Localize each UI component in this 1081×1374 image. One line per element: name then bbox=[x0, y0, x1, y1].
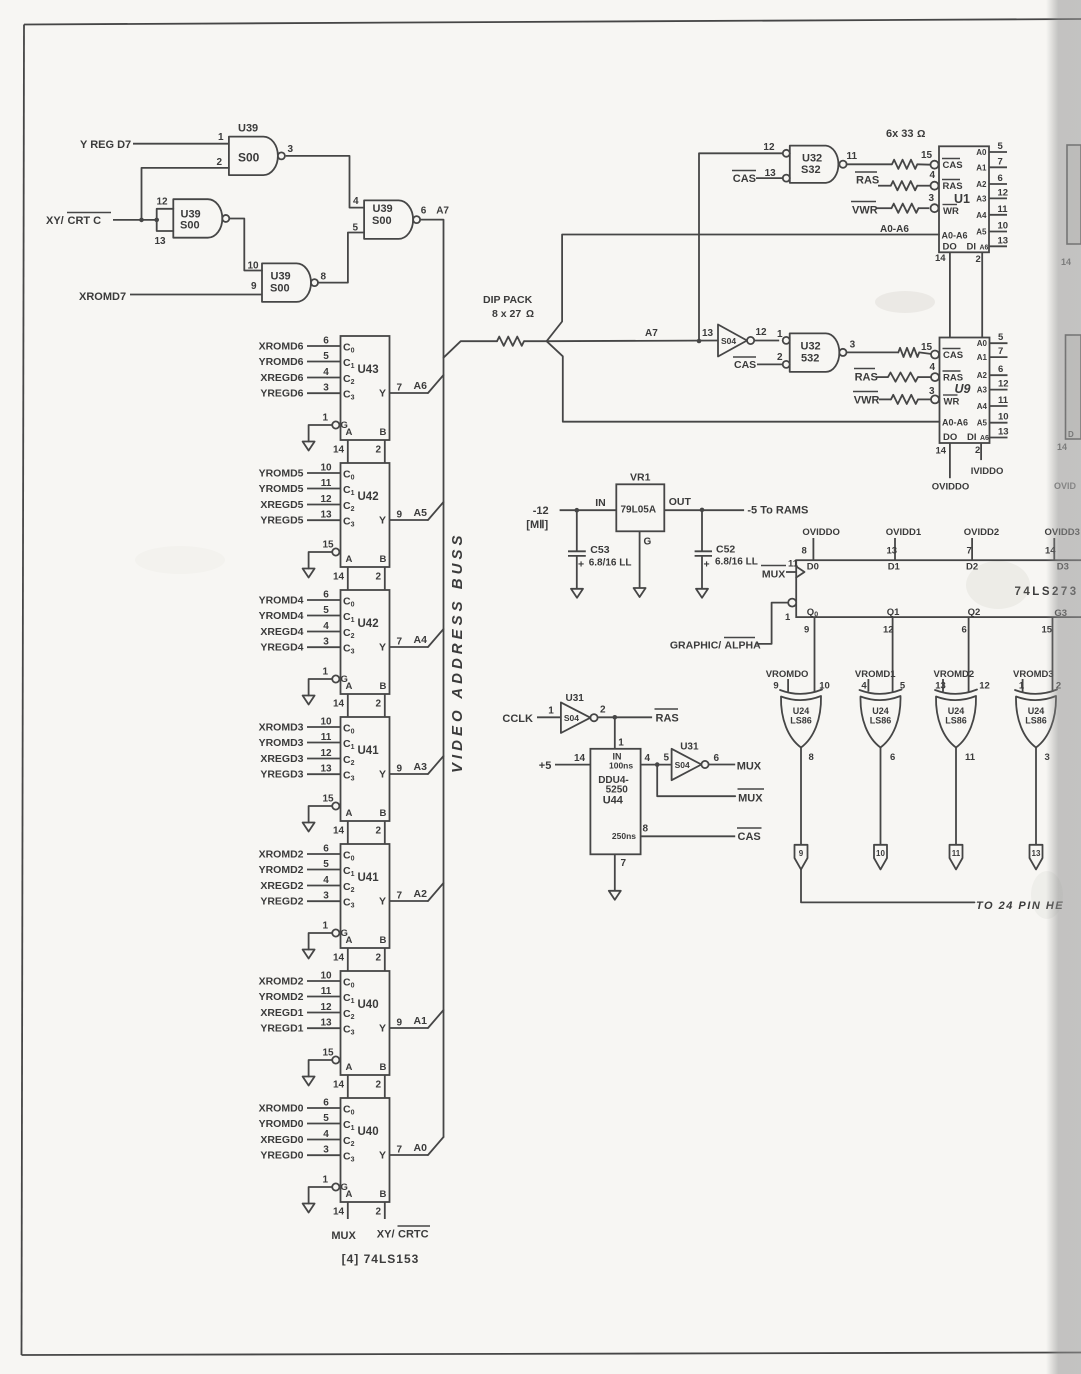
svg-text:11: 11 bbox=[965, 752, 976, 763]
svg-text:14: 14 bbox=[936, 446, 947, 457]
svg-text:10: 10 bbox=[320, 463, 332, 474]
svg-text:1: 1 bbox=[548, 706, 554, 717]
svg-text:5: 5 bbox=[664, 753, 670, 764]
svg-text:2: 2 bbox=[376, 1207, 382, 1218]
svg-text:A2: A2 bbox=[414, 888, 428, 900]
wire bbox=[537, 716, 561, 718]
svg-text:2: 2 bbox=[376, 1080, 382, 1091]
svg-text:U40: U40 bbox=[358, 1126, 379, 1138]
svg-text:B: B bbox=[380, 427, 387, 438]
svg-text:14: 14 bbox=[574, 753, 586, 764]
wire bbox=[756, 177, 783, 179]
svg-text:B: B bbox=[380, 554, 387, 565]
svg-text:YREGD2: YREGD2 bbox=[260, 896, 303, 908]
svg-text:1: 1 bbox=[323, 921, 329, 932]
svg-text:G: G bbox=[644, 537, 652, 548]
svg-text:MUX: MUX bbox=[762, 569, 785, 581]
svg-text:1: 1 bbox=[777, 329, 783, 340]
svg-text:DO: DO bbox=[943, 242, 957, 253]
svg-text:12: 12 bbox=[979, 681, 990, 692]
svg-text:YROMD2: YROMD2 bbox=[259, 991, 304, 1003]
svg-text:A: A bbox=[346, 1062, 353, 1073]
wire bbox=[919, 352, 931, 354]
svg-text:C53: C53 bbox=[590, 544, 609, 556]
svg-text:6: 6 bbox=[962, 625, 967, 636]
svg-text:2: 2 bbox=[217, 157, 223, 168]
svg-text:15: 15 bbox=[323, 540, 335, 551]
svg-text:U32: U32 bbox=[802, 153, 822, 165]
svg-text:11: 11 bbox=[847, 151, 858, 162]
resistor 33 ohm RAS U9 bbox=[888, 373, 918, 382]
net RAS bbox=[855, 172, 879, 187]
svg-text:LS86: LS86 bbox=[790, 716, 812, 726]
svg-text:3: 3 bbox=[929, 193, 935, 204]
wire bbox=[919, 207, 930, 209]
svg-text:4: 4 bbox=[323, 875, 329, 886]
svg-text:5: 5 bbox=[323, 859, 329, 870]
mux U41 (A2) bbox=[259, 844, 444, 972]
svg-text:6: 6 bbox=[421, 206, 427, 217]
wire Q3 bbox=[1052, 617, 1054, 692]
svg-text:U39: U39 bbox=[373, 203, 393, 215]
wire A0-A6 to U1 bbox=[547, 235, 939, 342]
net RAS bbox=[655, 709, 679, 725]
xor U24 D bbox=[1013, 669, 1061, 748]
node junction bbox=[655, 762, 660, 767]
svg-text:6: 6 bbox=[714, 753, 720, 764]
wire bbox=[555, 764, 590, 766]
svg-text:15: 15 bbox=[921, 150, 933, 161]
wire bbox=[229, 219, 262, 271]
svg-text:DI: DI bbox=[967, 432, 977, 443]
wire U1 DO bbox=[949, 252, 951, 337]
svg-text:U24: U24 bbox=[872, 706, 889, 716]
svg-text:VROMD1: VROMD1 bbox=[855, 669, 896, 680]
resistor 33 ohm VWR U1 bbox=[892, 204, 919, 213]
svg-text:6: 6 bbox=[998, 364, 1003, 375]
svg-text:A4: A4 bbox=[414, 634, 428, 646]
mux U40 (A0) bbox=[259, 1098, 444, 1220]
svg-text:1: 1 bbox=[618, 738, 624, 749]
svg-text:A6: A6 bbox=[414, 380, 428, 392]
svg-text:4: 4 bbox=[645, 753, 651, 764]
wire D1 bbox=[894, 538, 896, 560]
wire D0 bbox=[812, 538, 814, 560]
svg-text:[4] 74LS153: [4] 74LS153 bbox=[342, 1252, 420, 1266]
svg-text:11: 11 bbox=[321, 732, 332, 743]
svg-text:YROMD0: YROMD0 bbox=[259, 1118, 304, 1130]
net RAS bbox=[854, 369, 878, 384]
svg-text:9: 9 bbox=[251, 281, 257, 292]
net XY/CRTC bbox=[377, 1226, 430, 1241]
svg-text:RAS: RAS bbox=[943, 181, 963, 192]
wire xor C output bbox=[955, 748, 957, 845]
resistor DIP PACK 8x27 bbox=[497, 337, 524, 346]
wire bbox=[22, 25, 25, 1356]
wire bbox=[157, 209, 174, 231]
connector pin 9 bbox=[795, 845, 808, 870]
svg-text:OVIDD2: OVIDD2 bbox=[964, 527, 999, 538]
svg-text:1: 1 bbox=[323, 1175, 329, 1186]
svg-text:B: B bbox=[380, 1062, 387, 1073]
svg-text:YREGD1: YREGD1 bbox=[260, 1023, 303, 1035]
svg-text:4: 4 bbox=[323, 621, 329, 632]
svg-text:ALPHA: ALPHA bbox=[725, 640, 762, 652]
svg-text:CRTC: CRTC bbox=[398, 1229, 429, 1241]
svg-text:XREGD6: XREGD6 bbox=[260, 372, 303, 384]
svg-text:YROMD4: YROMD4 bbox=[259, 595, 304, 607]
svg-text:4: 4 bbox=[930, 362, 936, 373]
svg-text:8 x 27: 8 x 27 bbox=[492, 308, 521, 320]
wire bbox=[560, 509, 617, 511]
wire VR1 G bbox=[639, 531, 641, 588]
svg-text:2: 2 bbox=[376, 699, 382, 710]
nand U39 D bbox=[353, 196, 427, 239]
svg-text:U39: U39 bbox=[271, 271, 291, 283]
svg-text:12: 12 bbox=[998, 379, 1009, 390]
svg-text:532: 532 bbox=[801, 353, 819, 365]
svg-text:9: 9 bbox=[804, 625, 809, 636]
svg-text:S04: S04 bbox=[721, 336, 736, 346]
svg-text:+5: +5 bbox=[539, 760, 552, 772]
svg-text:12: 12 bbox=[320, 748, 332, 759]
svg-text:U41: U41 bbox=[358, 745, 380, 757]
wire U9 DO bbox=[949, 443, 951, 478]
svg-text:Y: Y bbox=[379, 1150, 386, 1162]
svg-text:CAS: CAS bbox=[734, 359, 756, 371]
svg-text:10: 10 bbox=[998, 412, 1009, 423]
svg-text:VROMD2: VROMD2 bbox=[934, 669, 975, 680]
svg-text:7: 7 bbox=[967, 546, 972, 557]
svg-text:RAS: RAS bbox=[855, 372, 878, 384]
svg-text:OVIDDO: OVIDDO bbox=[802, 527, 839, 538]
svg-text:7: 7 bbox=[397, 891, 403, 902]
svg-text:15: 15 bbox=[323, 794, 335, 805]
svg-text:XREGD3: XREGD3 bbox=[260, 753, 303, 765]
svg-text:2: 2 bbox=[376, 572, 382, 583]
net -12 [MII] bbox=[526, 505, 548, 531]
svg-text:13: 13 bbox=[998, 427, 1009, 438]
svg-text:3: 3 bbox=[929, 386, 935, 397]
svg-text:VR1: VR1 bbox=[630, 472, 651, 484]
svg-text:U44: U44 bbox=[603, 795, 624, 807]
wire bbox=[22, 1353, 1081, 1356]
svg-text:A: A bbox=[346, 554, 353, 565]
net VWR bbox=[853, 392, 880, 407]
svg-text:XROMD2: XROMD2 bbox=[259, 976, 304, 988]
wire bbox=[918, 398, 932, 400]
node junction bbox=[575, 508, 580, 513]
net VWR bbox=[851, 202, 878, 217]
svg-text:+: + bbox=[704, 559, 710, 571]
node junction bbox=[700, 508, 705, 513]
svg-text:7: 7 bbox=[397, 1145, 403, 1156]
svg-text:Y: Y bbox=[379, 769, 386, 781]
svg-text:4: 4 bbox=[930, 170, 936, 181]
svg-text:XREGD5: XREGD5 bbox=[260, 499, 303, 511]
svg-text:9: 9 bbox=[773, 681, 778, 692]
svg-text:DI: DI bbox=[967, 242, 977, 253]
svg-text:4: 4 bbox=[323, 367, 329, 378]
svg-text:6: 6 bbox=[323, 590, 329, 601]
svg-text:S04: S04 bbox=[564, 713, 579, 723]
svg-text:A6: A6 bbox=[980, 245, 989, 252]
nand U39 A bbox=[217, 123, 294, 176]
ground bbox=[696, 589, 708, 598]
wire xor A output bbox=[800, 748, 802, 845]
wire xor D output bbox=[1035, 748, 1037, 845]
svg-text:Y REG D7: Y REG D7 bbox=[80, 139, 131, 151]
svg-text:A4: A4 bbox=[977, 402, 988, 411]
svg-text:6: 6 bbox=[323, 1098, 329, 1109]
svg-text:6.8/16 LL: 6.8/16 LL bbox=[715, 557, 758, 568]
label 6x33 ohm bbox=[886, 128, 925, 140]
svg-text:OUT: OUT bbox=[669, 496, 692, 508]
svg-text:5: 5 bbox=[353, 223, 359, 234]
xor U24 B bbox=[855, 669, 906, 748]
wire U1 DI bbox=[981, 252, 983, 337]
svg-text:1: 1 bbox=[785, 612, 791, 623]
svg-text:A7: A7 bbox=[436, 206, 449, 217]
mux U41 (A3) bbox=[259, 717, 444, 845]
svg-text:5: 5 bbox=[998, 332, 1004, 343]
svg-text:11: 11 bbox=[321, 986, 332, 997]
svg-text:2: 2 bbox=[600, 705, 606, 716]
svg-text:U31: U31 bbox=[566, 693, 585, 704]
svg-text:A: A bbox=[346, 808, 353, 819]
svg-text:OVIDD1: OVIDD1 bbox=[886, 527, 922, 538]
ram partial (right edge) bbox=[1067, 145, 1081, 244]
svg-text:YROMD5: YROMD5 bbox=[259, 468, 304, 480]
svg-text:S04: S04 bbox=[675, 760, 690, 770]
svg-text:14: 14 bbox=[333, 445, 345, 456]
svg-text:14: 14 bbox=[333, 826, 345, 837]
svg-text:10: 10 bbox=[876, 849, 885, 858]
svg-text:DO: DO bbox=[943, 432, 957, 443]
xor U24 C bbox=[934, 669, 990, 748]
svg-text:S00: S00 bbox=[238, 151, 260, 165]
svg-text:7: 7 bbox=[621, 858, 627, 869]
svg-text:1: 1 bbox=[218, 132, 224, 143]
wire Q1 bbox=[892, 617, 894, 692]
inverter U31 B bbox=[664, 742, 720, 781]
svg-text:12: 12 bbox=[883, 625, 894, 636]
svg-text:12: 12 bbox=[763, 142, 775, 153]
svg-text:CCLK: CCLK bbox=[502, 713, 533, 725]
svg-text:100ns: 100ns bbox=[609, 761, 633, 771]
svg-text:U42: U42 bbox=[358, 491, 379, 503]
node junction bbox=[697, 339, 702, 344]
svg-text:A6: A6 bbox=[980, 435, 989, 442]
svg-text:B: B bbox=[380, 935, 387, 946]
node junction bbox=[613, 715, 618, 720]
wire bbox=[113, 219, 157, 221]
svg-text:13: 13 bbox=[998, 235, 1009, 246]
svg-text:7: 7 bbox=[397, 637, 403, 648]
svg-text:YROMD5: YROMD5 bbox=[259, 483, 304, 495]
wire bbox=[918, 376, 932, 378]
svg-text:4: 4 bbox=[861, 681, 867, 692]
wire bbox=[641, 835, 736, 837]
wire bbox=[757, 603, 788, 644]
svg-text:A: A bbox=[346, 935, 353, 946]
svg-text:+: + bbox=[578, 559, 584, 571]
svg-text:YROMD3: YROMD3 bbox=[259, 737, 304, 749]
svg-text:10: 10 bbox=[320, 971, 332, 982]
svg-text:RAS: RAS bbox=[856, 175, 879, 187]
svg-text:13: 13 bbox=[887, 546, 898, 557]
svg-text:U39: U39 bbox=[238, 123, 258, 135]
svg-text:13: 13 bbox=[155, 236, 167, 247]
wire A0-A6 to U9 bbox=[547, 341, 940, 422]
svg-text:15: 15 bbox=[323, 1048, 335, 1059]
svg-text:4: 4 bbox=[353, 196, 359, 207]
svg-text:Y: Y bbox=[379, 515, 386, 527]
wire D3 bbox=[1053, 538, 1055, 560]
wire bbox=[709, 764, 736, 766]
svg-text:8: 8 bbox=[321, 272, 327, 283]
svg-text:A7: A7 bbox=[645, 328, 658, 339]
xor U24 A bbox=[766, 669, 830, 748]
connector pin 13 bbox=[1030, 845, 1043, 870]
wire A7 to inverter bbox=[547, 340, 718, 343]
inverter S04 bbox=[702, 325, 767, 357]
resistor 33 ohm VWR U9 bbox=[891, 395, 918, 404]
ram U1 bbox=[921, 141, 1008, 265]
svg-text:B: B bbox=[380, 808, 387, 819]
wire bbox=[318, 233, 364, 283]
svg-text:Ω: Ω bbox=[526, 309, 534, 320]
svg-text:3: 3 bbox=[323, 383, 329, 394]
svg-text:11: 11 bbox=[998, 204, 1009, 215]
svg-text:5: 5 bbox=[323, 1113, 329, 1124]
svg-text:CRT C: CRT C bbox=[68, 215, 102, 227]
svg-text:A1: A1 bbox=[414, 1015, 428, 1027]
svg-text:LS86: LS86 bbox=[945, 716, 967, 726]
svg-text:7: 7 bbox=[397, 383, 403, 394]
svg-text:YREGD3: YREGD3 bbox=[260, 769, 303, 781]
ground bbox=[609, 891, 621, 900]
svg-text:5: 5 bbox=[323, 351, 329, 362]
node junction bbox=[154, 218, 159, 223]
mux U42 (A4) bbox=[259, 590, 444, 718]
svg-text:15: 15 bbox=[921, 342, 933, 353]
wire xor B output bbox=[880, 748, 882, 845]
svg-text:Y: Y bbox=[379, 1023, 386, 1035]
nand U39 C bbox=[248, 261, 327, 302]
svg-text:A3: A3 bbox=[977, 386, 988, 395]
svg-text:8: 8 bbox=[643, 824, 649, 835]
svg-text:12: 12 bbox=[157, 197, 169, 208]
connector pin 10 bbox=[874, 845, 887, 870]
svg-text:D0: D0 bbox=[807, 562, 819, 573]
wire to 24 pin header bbox=[801, 869, 975, 902]
ram U9 bbox=[921, 332, 1009, 456]
svg-text:A: A bbox=[346, 681, 353, 692]
wire bbox=[847, 163, 892, 165]
label DIP PACK 8x27 bbox=[483, 294, 534, 320]
svg-text:A0: A0 bbox=[414, 1142, 428, 1154]
svg-text:14: 14 bbox=[333, 953, 345, 964]
wire bbox=[877, 207, 892, 209]
wire bbox=[917, 185, 930, 187]
wire bbox=[286, 156, 364, 208]
svg-text:XROMD2: XROMD2 bbox=[259, 849, 304, 861]
svg-text:XREGD2: XREGD2 bbox=[260, 880, 303, 892]
or-gate U32 B bbox=[777, 329, 856, 372]
svg-text:VWR: VWR bbox=[854, 395, 880, 407]
svg-text:DIP PACK: DIP PACK bbox=[483, 294, 533, 306]
svg-text:11: 11 bbox=[998, 395, 1009, 406]
svg-text:CAS: CAS bbox=[733, 173, 756, 185]
svg-text:3: 3 bbox=[850, 340, 856, 351]
svg-text:WR: WR bbox=[943, 206, 959, 217]
svg-text:8: 8 bbox=[802, 546, 807, 557]
svg-text:6x 33: 6x 33 bbox=[886, 128, 914, 140]
svg-text:U43: U43 bbox=[358, 364, 379, 376]
svg-text:S00: S00 bbox=[372, 215, 392, 227]
svg-text:C52: C52 bbox=[716, 544, 735, 556]
net GRAPHIC/ALPHA bbox=[670, 638, 761, 652]
connector pin 11 bbox=[950, 845, 963, 870]
svg-text:MUX: MUX bbox=[737, 761, 762, 773]
svg-text:2: 2 bbox=[376, 953, 382, 964]
or-gate U32 A bbox=[763, 142, 857, 183]
svg-text:14: 14 bbox=[333, 572, 345, 583]
svg-text:B: B bbox=[380, 681, 387, 692]
wire bbox=[757, 363, 783, 365]
wire D2 bbox=[971, 538, 973, 560]
capacitor C53 bbox=[568, 510, 632, 589]
svg-text:S00: S00 bbox=[180, 220, 200, 232]
svg-text:9: 9 bbox=[799, 849, 804, 858]
svg-text:A2: A2 bbox=[976, 180, 987, 189]
svg-text:7: 7 bbox=[998, 346, 1003, 357]
nand U39 B bbox=[155, 197, 230, 248]
wire bbox=[786, 571, 796, 573]
svg-text:3: 3 bbox=[323, 891, 329, 902]
svg-text:-5 To RAMS: -5 To RAMS bbox=[747, 505, 808, 517]
svg-text:10: 10 bbox=[320, 717, 332, 728]
svg-text:A0-A6: A0-A6 bbox=[942, 418, 968, 428]
svg-text:XROMD6: XROMD6 bbox=[259, 341, 304, 353]
svg-text:10: 10 bbox=[248, 261, 260, 272]
svg-text:VROMDO: VROMDO bbox=[766, 669, 809, 680]
svg-text:14: 14 bbox=[333, 699, 345, 710]
svg-text:XREGD1: XREGD1 bbox=[260, 1007, 303, 1019]
svg-text:XY/: XY/ bbox=[46, 215, 64, 227]
net XY/CRTC bbox=[46, 213, 111, 228]
capacitor C52 bbox=[695, 510, 758, 589]
svg-text:250ns: 250ns bbox=[612, 831, 636, 841]
wire bbox=[598, 716, 652, 718]
svg-text:A0: A0 bbox=[977, 339, 988, 348]
wire bbox=[614, 717, 616, 749]
wire U9 DI bbox=[980, 443, 982, 460]
svg-text:YROMD4: YROMD4 bbox=[259, 610, 304, 622]
regulator VR1 79L05A bbox=[595, 472, 691, 548]
svg-text:9: 9 bbox=[397, 510, 403, 521]
svg-text:U42: U42 bbox=[358, 618, 379, 630]
wire Q2 bbox=[968, 617, 970, 692]
svg-text:S00: S00 bbox=[270, 283, 290, 295]
svg-text:2: 2 bbox=[777, 352, 783, 363]
svg-text:2: 2 bbox=[976, 254, 981, 265]
latch 74LS273 bbox=[785, 559, 1081, 624]
svg-text:14: 14 bbox=[333, 1207, 345, 1218]
svg-text:XREGD4: XREGD4 bbox=[260, 626, 303, 638]
wire bbox=[130, 294, 262, 296]
